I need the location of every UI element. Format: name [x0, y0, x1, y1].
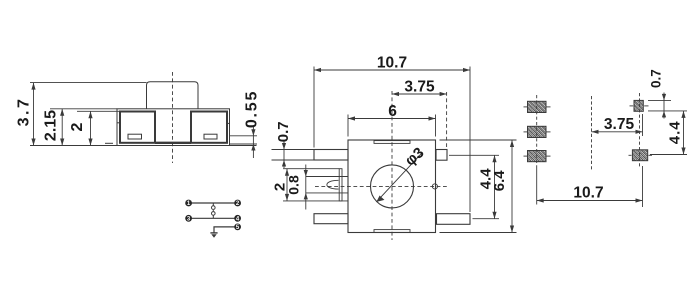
diameter leader line [376, 152, 422, 202]
side view left inner block [120, 112, 155, 143]
side view left wall tick [117, 122, 120, 124]
dimension 0.55 extension lines [230, 135, 258, 137]
side view right terminal slot [204, 134, 217, 139]
dimension 10.7 land line [537, 200, 643, 202]
shaft bottom line [306, 192, 348, 194]
dimension 2 line [90, 111, 92, 145]
svg-text:3.75: 3.75 [404, 79, 435, 96]
dimension 3.75 land right extension [642, 114, 644, 136]
side view right inner block [191, 112, 227, 143]
terminal pin 4 [234, 215, 241, 222]
svg-text:4.4: 4.4 [667, 120, 684, 144]
terminal pin 2 [234, 200, 241, 207]
dimension 2 extension lines [283, 168, 339, 170]
dimension 10.7 extension lines [313, 67, 315, 148]
svg-text:6: 6 [388, 103, 397, 120]
dimension 2 extension line [77, 110, 120, 112]
svg-text:0.7: 0.7 [649, 69, 664, 88]
bottom-left terminal [314, 214, 348, 224]
pad left 2 [528, 126, 547, 137]
wire line 3-4 [190, 217, 236, 219]
arrows side view [31, 83, 255, 151]
center circle [371, 165, 414, 208]
dimension 3.75 line [392, 93, 447, 95]
side view centerline [172, 72, 174, 163]
dimension 2.15 extension line [50, 108, 117, 110]
dimension 0.8 line [305, 165, 307, 210]
svg-text:0.55: 0.55 [244, 90, 261, 128]
dimension 3.7 extension line [30, 82, 147, 84]
dimension 0.55 line [252, 126, 254, 158]
schematic terminal circles [185, 200, 241, 231]
shaft top line [306, 176, 348, 178]
right edge bump [432, 184, 437, 189]
diameter leader arrow [376, 196, 384, 202]
side view left terminal slot [128, 134, 142, 139]
side view right wall tick [227, 122, 230, 124]
dimension 0.7 line [283, 140, 285, 168]
dimension 2 line [286, 169, 288, 201]
dimension 4.4 land line [683, 111, 685, 155]
pad center ticks [524, 106, 528, 108]
dimension 4.4 extension lines [449, 154, 499, 156]
dimension 6 extension lines [347, 115, 349, 137]
shaft flange [339, 169, 342, 201]
side view notch bottom wire [155, 142, 191, 144]
dimension 3.7 line [33, 83, 35, 146]
dimension 4.4 land bottom extension [650, 154, 687, 156]
dimension 3.75 extension line [446, 91, 448, 148]
dimension 2.15 line [61, 109, 63, 146]
land pattern centerlines [524, 93, 653, 171]
bottom-right terminal [437, 214, 471, 225]
svg-text:2: 2 [69, 122, 86, 131]
top view body [348, 140, 436, 233]
dimension 0.7 extension lines [272, 149, 315, 151]
svg-text:3.75: 3.75 [604, 116, 635, 133]
svg-text:10.7: 10.7 [377, 55, 407, 72]
dimension 3.75 land line [592, 131, 643, 133]
schematic pin numbers [187, 201, 240, 231]
svg-text:0.7: 0.7 [275, 121, 292, 142]
dimension 0.7 land line [663, 93, 665, 119]
svg-text:10.7: 10.7 [573, 184, 603, 201]
svg-text:6.4: 6.4 [491, 170, 508, 192]
dimension 6.4 line [511, 140, 513, 233]
top-right terminal stub [436, 150, 447, 161]
terminal pin 1 [185, 200, 192, 207]
top view [306, 140, 470, 233]
wire to terminal 5 [214, 227, 235, 233]
arrows top view [282, 68, 514, 233]
shaft tip arc [327, 180, 339, 189]
terminal pin 3 [185, 215, 192, 222]
svg-text:φ3: φ3 [402, 144, 428, 169]
side view body outline [117, 109, 230, 146]
dimension 6 line [348, 118, 436, 120]
arrows land pattern [537, 94, 686, 203]
dimension 0.7 land extension lines [648, 99, 671, 101]
dimension 10.7 line [314, 69, 470, 71]
pad left 1 [528, 101, 547, 112]
terminal pin 5 [234, 224, 241, 231]
side view left terminal stub [105, 142, 113, 144]
svg-text:0.8: 0.8 [286, 175, 302, 195]
top view lower slot [374, 230, 410, 233]
pad right bottom [632, 150, 647, 161]
dimension 10.7 land extension lines [536, 168, 538, 205]
schematic symbol [190, 203, 236, 233]
schematic case ground tack [210, 233, 217, 238]
top view centerlines [315, 91, 447, 240]
pad left 3 [528, 151, 547, 162]
dimension 4.4 line [494, 155, 496, 218]
wire line 1-2 [190, 202, 236, 204]
svg-text:3.7: 3.7 [16, 97, 33, 127]
dimension 6.4 extension lines [440, 139, 517, 141]
top view upper slot [374, 141, 410, 144]
pad right top [634, 100, 643, 111]
switch contact link [212, 203, 214, 206]
svg-text:2.15: 2.15 [43, 110, 60, 141]
side view baseline [30, 145, 257, 147]
side view button [147, 82, 199, 109]
top-left terminal [314, 150, 348, 161]
